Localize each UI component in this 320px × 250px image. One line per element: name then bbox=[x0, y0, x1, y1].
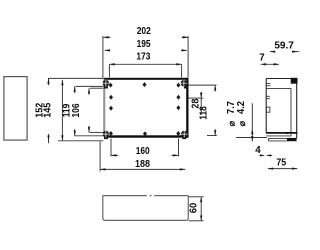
svg-text:160: 160 bbox=[136, 146, 150, 157]
svg-text:195: 195 bbox=[137, 39, 152, 50]
svg-text:⌀: ⌀ bbox=[227, 120, 237, 126]
svg-text:145: 145 bbox=[43, 102, 54, 118]
svg-text:106: 106 bbox=[71, 103, 82, 118]
svg-text:⌀: ⌀ bbox=[237, 120, 247, 126]
svg-text:59.7: 59.7 bbox=[274, 40, 294, 51]
svg-text:173: 173 bbox=[136, 52, 151, 63]
svg-text:4: 4 bbox=[255, 145, 261, 156]
svg-text:75: 75 bbox=[276, 158, 286, 169]
svg-text:4.2: 4.2 bbox=[236, 101, 247, 114]
svg-text:188: 188 bbox=[135, 159, 151, 170]
svg-text:118: 118 bbox=[199, 106, 210, 120]
svg-text:7: 7 bbox=[259, 52, 264, 63]
svg-text:202: 202 bbox=[137, 26, 151, 37]
svg-text:60: 60 bbox=[189, 203, 200, 214]
